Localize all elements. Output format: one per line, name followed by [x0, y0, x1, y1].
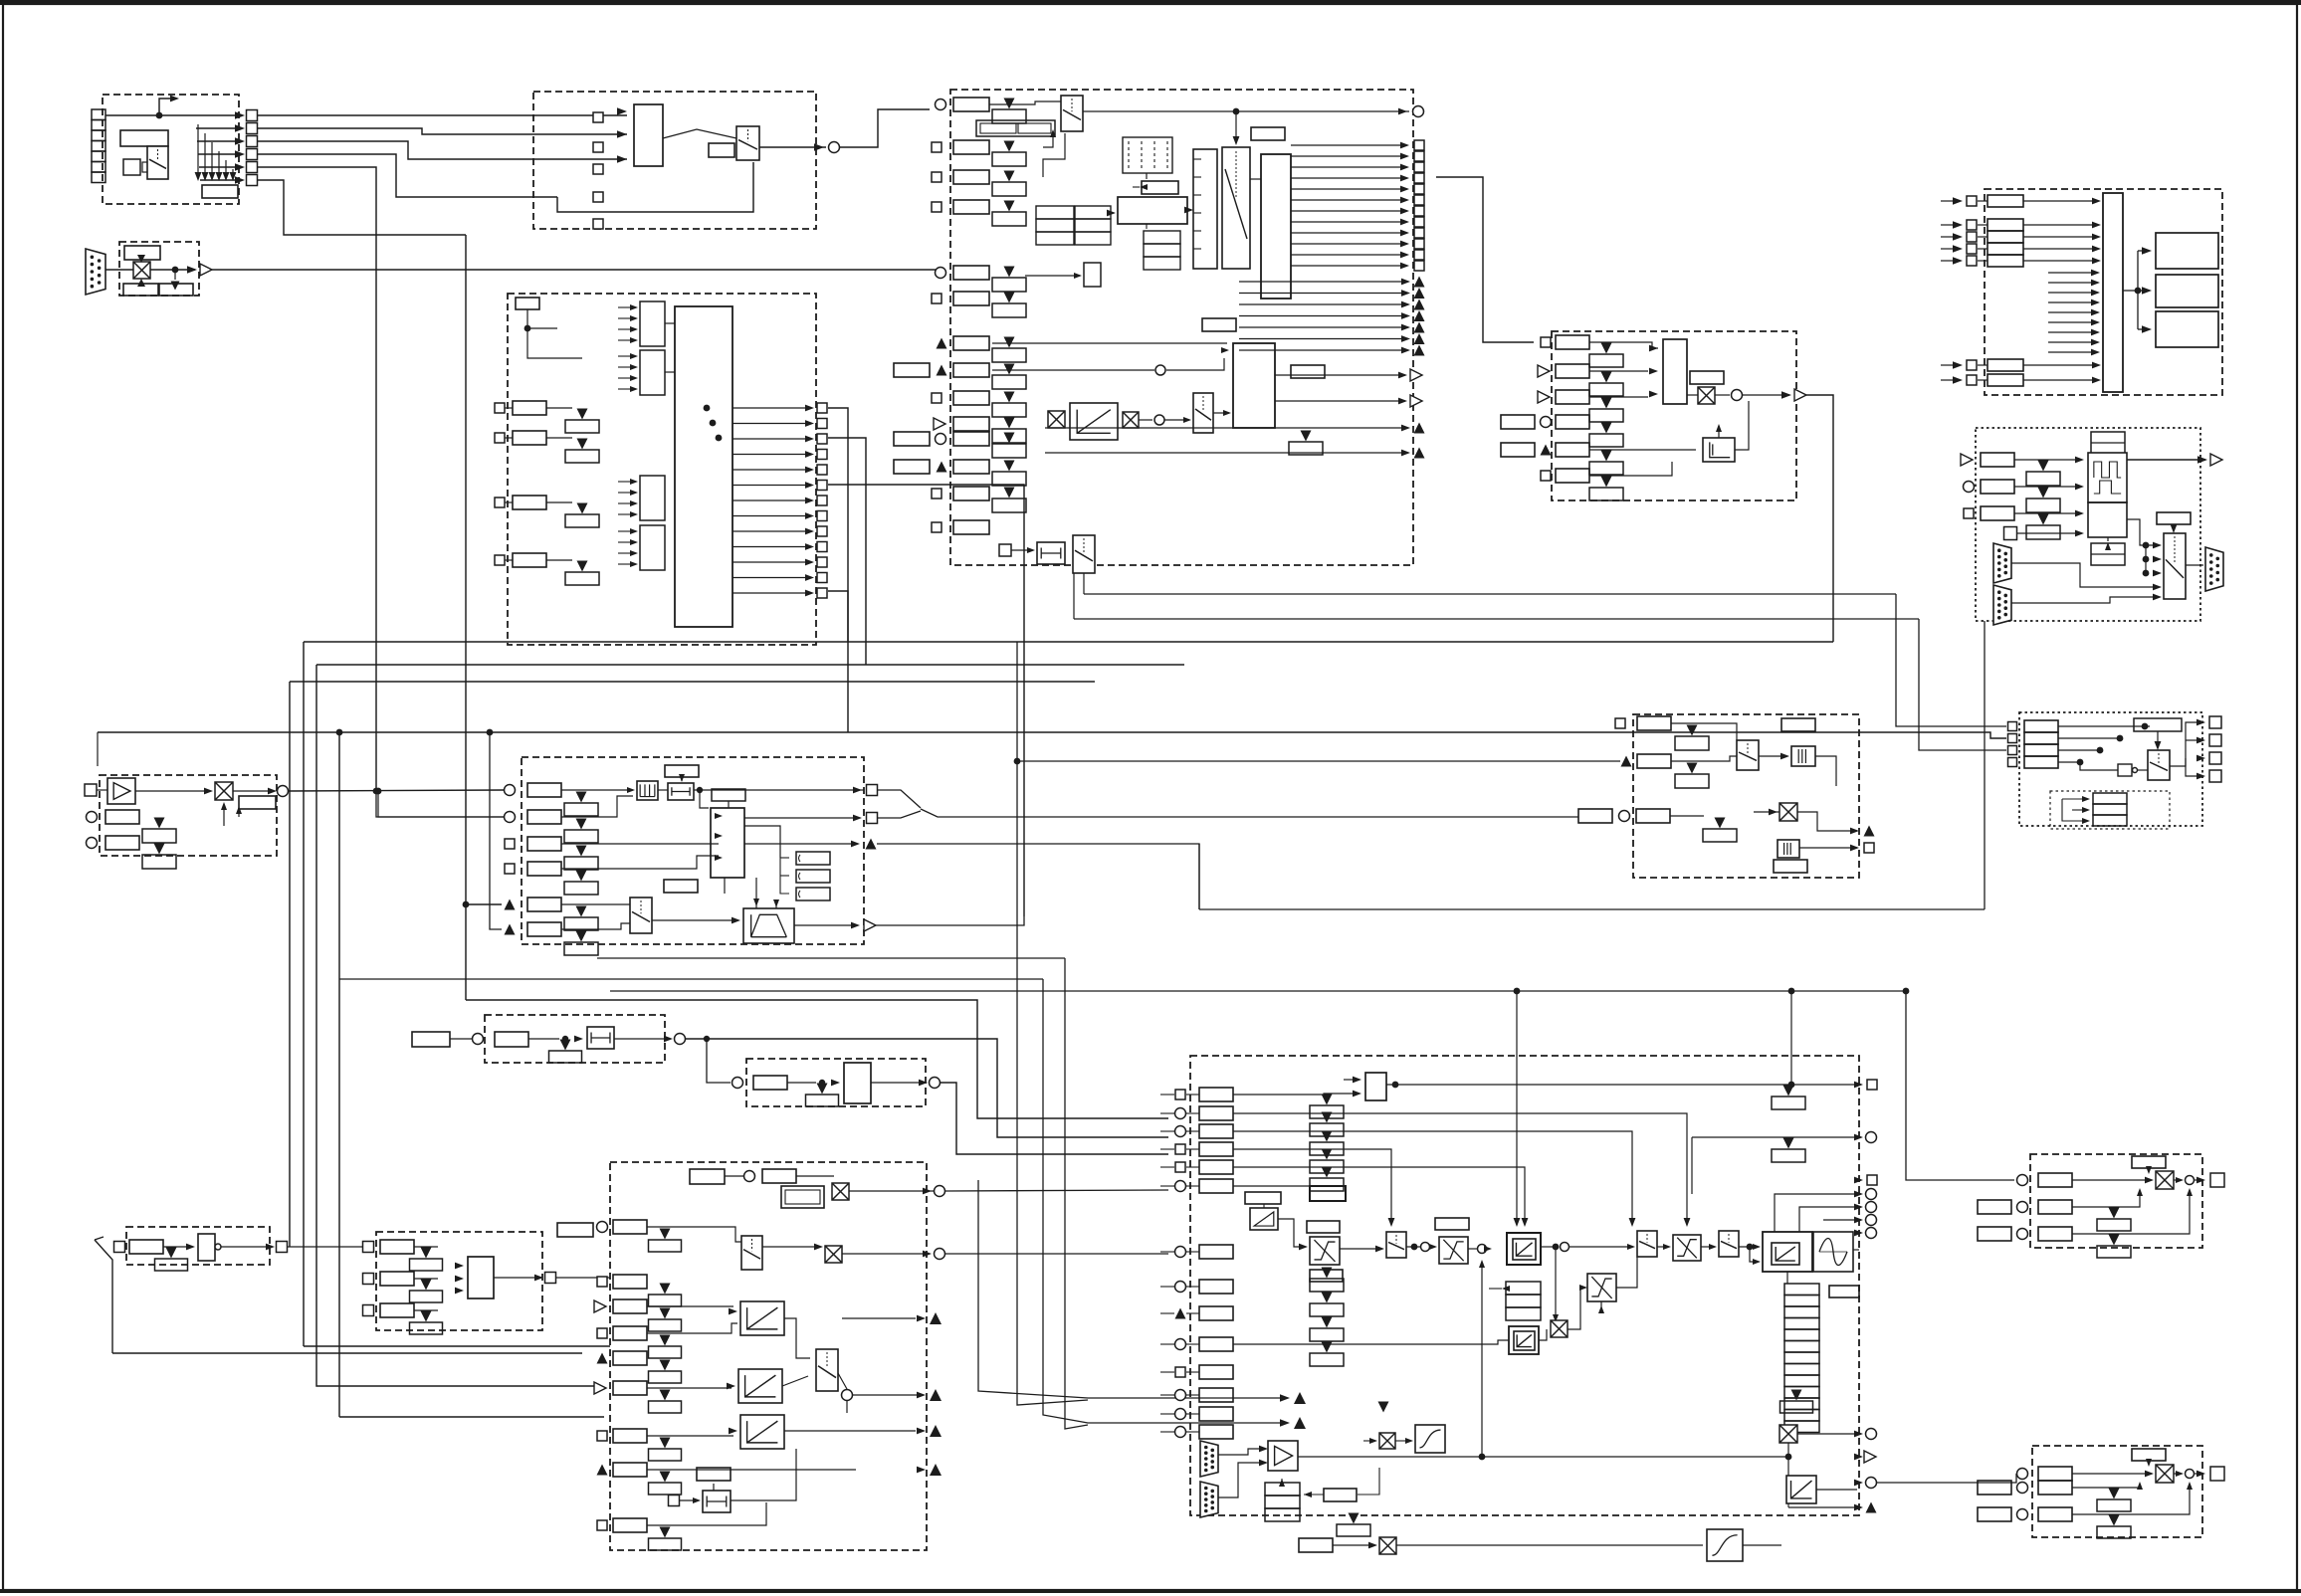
arrow into xbox from status: [137, 279, 145, 287]
wire lower loop to switch: [557, 162, 753, 212]
switch N2: [1637, 1231, 1657, 1257]
ext label slip M: [690, 1169, 725, 1184]
inner frame M: [785, 1190, 820, 1204]
wire xbox out: [150, 269, 195, 271]
2-stack top G: [2091, 432, 2125, 454]
DB9 connector N1: [1200, 1441, 1218, 1477]
output triangle D-1: [1414, 288, 1425, 299]
multiplier xbox H: [215, 782, 233, 800]
wire A1.6 step: [258, 180, 466, 235]
param top R: [2132, 1156, 2166, 1168]
arrow F y367: [1953, 361, 1963, 369]
input square Q2: [2008, 746, 2017, 755]
ext label P: [1578, 809, 1612, 823]
ext label box J: [412, 1032, 450, 1047]
char curve M3: [740, 1415, 784, 1449]
binector output square A1-1: [247, 110, 258, 121]
multiplier xbox E: [1698, 387, 1715, 404]
input circle S3: [2017, 1509, 2028, 1520]
connector square b1: [593, 112, 603, 122]
output triangle E: [1794, 389, 1806, 401]
wire long vertical x305: [303, 642, 305, 1346]
ext label D11: [894, 460, 930, 474]
output switch G: [2164, 533, 2186, 599]
input circle N y1439: [1175, 1427, 1186, 1438]
input circle J: [473, 1034, 484, 1045]
block: min selector E: [1663, 339, 1687, 404]
param below limiter N1: [1310, 1270, 1343, 1282]
input square L1: [363, 1274, 374, 1285]
input square G: [1964, 508, 1974, 518]
jog chain bottom of D: [999, 544, 1011, 556]
wire DB9 to xbox: [105, 269, 133, 271]
node circle Nc: [1561, 1243, 1569, 1252]
indexed param C y563: [577, 561, 588, 572]
dashed group: fixed frequency box L: [376, 1232, 542, 1330]
wire merge 1b: [1017, 642, 1088, 1405]
wire down2: [527, 328, 582, 358]
wire mux out y168: [1291, 166, 1405, 168]
input triangle G: [1961, 454, 1973, 466]
out tri D low2: [1414, 448, 1425, 459]
connector square K out: [277, 1242, 288, 1253]
wire D out to box E: [1436, 177, 1534, 342]
stair 2: [1799, 1207, 1859, 1232]
block: display word 2: [2156, 275, 2218, 307]
input square C y440: [495, 433, 505, 443]
input square N y1100: [1175, 1090, 1185, 1099]
input circle E y424: [1541, 417, 1552, 428]
tall selector switch D2: [1222, 147, 1250, 269]
param box: switch source: [709, 143, 734, 157]
indexed param C y505: [577, 503, 588, 514]
node circle E: [1732, 390, 1743, 401]
wire: branch arrow up: [159, 99, 175, 112]
input square M y1288: [597, 1277, 607, 1287]
block: status mux F: [2103, 193, 2123, 392]
output ref triangle D2: [1410, 395, 1422, 407]
input ftri I y934: [505, 924, 516, 935]
arrow N out low y1490: [1854, 1480, 1863, 1487]
output ref triangle D1: [1410, 369, 1422, 381]
indexed param on y1090: [1783, 1086, 1794, 1097]
junction dots C: [524, 325, 531, 332]
multiplier xbox N right: [1779, 1425, 1797, 1443]
param P low2: [1774, 860, 1807, 873]
input circle N y1119: [1175, 1108, 1186, 1119]
bus drop x1800: [1790, 991, 1792, 1085]
input square D13: [932, 522, 941, 532]
junction dots on mux input: [704, 405, 711, 412]
indexed param C y410: [577, 409, 588, 420]
wire bus y996: [610, 990, 1906, 992]
junction dot x1022 y765: [1014, 758, 1021, 765]
input square D12: [932, 489, 941, 499]
filter block P2: [1778, 840, 1799, 858]
block: modulator lower: [2088, 502, 2127, 537]
ext label E2: [1501, 443, 1535, 457]
wire A1.3 to box B input 3: [258, 141, 627, 159]
output square N top: [1867, 1080, 1877, 1090]
binector output square A1-4: [247, 149, 258, 160]
output circle J: [675, 1034, 686, 1045]
junction dots y1090: [1392, 1082, 1399, 1089]
page bottom heavy rule: [0, 1589, 2301, 1593]
param above xbox N low: [1378, 1402, 1389, 1413]
param above droop N: [1245, 1192, 1281, 1204]
arrow N out y1186: [1854, 1177, 1863, 1184]
wire mux out y157: [1291, 155, 1405, 157]
jog switch D: [1073, 535, 1095, 573]
wire long vertical x318 to box M: [316, 665, 596, 1386]
output circle N y1143: [1866, 1132, 1877, 1143]
param box Q top: [2134, 718, 2182, 731]
wire E out down to bus: [1806, 395, 1833, 642]
indexed param under core D: [1301, 431, 1312, 442]
param box: USS address: [124, 246, 160, 260]
wire H branch to box I row2: [378, 791, 504, 817]
wire mux out 5: [732, 485, 808, 487]
wire long bus y645: [304, 641, 1833, 643]
output square I2: [867, 813, 878, 824]
input circle I y821: [505, 812, 516, 823]
wire to switch: [989, 101, 1061, 104]
input square D2: [932, 142, 941, 152]
switch N3: [1719, 1231, 1739, 1257]
op-amp N: [1268, 1441, 1298, 1471]
input triangle E y373: [1538, 365, 1550, 377]
junction dot bus996 x1524: [1514, 988, 1521, 995]
wire M out y1260: [945, 1253, 1168, 1255]
output square P: [1864, 843, 1874, 853]
wire y1360 to box M: [112, 1352, 582, 1354]
param above mux D: [1251, 127, 1285, 140]
param above brake xbox: [1349, 1513, 1360, 1524]
dashed group: MOP & fixed setpoint box I: [522, 757, 864, 944]
stub down: [174, 270, 176, 280]
sine generator N: [1813, 1232, 1853, 1272]
stub: [97, 732, 99, 766]
indexed param on y1143: [1783, 1138, 1794, 1149]
3-row stack D: [1144, 231, 1180, 244]
matrix param box: [1142, 181, 1178, 194]
param right of stack: [1829, 1286, 1859, 1297]
wire mux out y267: [1291, 265, 1405, 267]
dashed group: analog output box S: [2032, 1446, 2202, 1537]
ramp-function generator D: [1070, 403, 1118, 440]
indexed param R: [2109, 1208, 2120, 1219]
junction dot x341 bus736: [336, 729, 343, 736]
arrow N out y1213: [1854, 1204, 1863, 1211]
DB9 encoder connector G2: [1993, 585, 2011, 625]
wire long bus y668: [316, 664, 1184, 666]
NOT bubble K: [215, 1244, 221, 1250]
ext label S3: [1978, 1507, 2011, 1521]
block: PID scaler O: [844, 1063, 871, 1103]
junction dot I: [697, 787, 703, 793]
arrow out Q2: [2196, 755, 2205, 762]
input circle N y1192: [1175, 1181, 1186, 1192]
wire A1.2 to box B input 2: [258, 128, 627, 134]
wire long bus y685: [290, 681, 1095, 683]
wire mux out 6: [732, 499, 808, 501]
arrow into switch G y590: [2153, 584, 2162, 591]
param under L2: [421, 1311, 432, 1322]
wire to analog out R: [1906, 991, 2014, 1180]
block: big binector multiplexer: [675, 306, 732, 627]
arrow N out y1239: [1854, 1230, 1863, 1237]
wire up into switch2: [1043, 133, 1065, 177]
wire bus y963: [597, 957, 1065, 959]
wire merge 2: [1043, 979, 1284, 1423]
arrow into connector sq5: [235, 163, 245, 171]
PID switch: [1737, 740, 1759, 770]
limiter N2: [1439, 1237, 1468, 1264]
wire bus y914: [1199, 908, 1985, 910]
node circle M: [842, 1390, 853, 1401]
block: logic gate: [123, 159, 140, 175]
ramp block N right: [1786, 1476, 1816, 1503]
binector output square A1-5: [247, 162, 258, 173]
wire branch to box I ftri: [466, 903, 502, 905]
block: NOT K: [198, 1234, 215, 1261]
input square N y1379: [1175, 1367, 1185, 1377]
merge output tri 2: [1294, 1417, 1306, 1429]
wire merge 2b: [1065, 958, 1088, 1429]
3-stack rects Q: [2093, 793, 2127, 804]
analog output triangle: [200, 264, 212, 276]
wire out tri y283.0: [1239, 281, 1405, 283]
limiter N1: [1310, 1237, 1340, 1265]
junction dot x378/H: [373, 788, 380, 795]
input square Q3: [2008, 758, 2017, 767]
indexed param S3: [2109, 1515, 2120, 1526]
wire to Q: [1896, 594, 2006, 726]
wire vert x1994 from G: [1984, 621, 1986, 909]
input ftri I y909: [505, 899, 516, 910]
block: display word 3: [2156, 311, 2218, 347]
param right of switch I: [664, 880, 698, 893]
dashed group: analog input box H: [100, 775, 277, 856]
param right of xbox H: [239, 796, 276, 809]
wire N top output y1090: [1386, 1084, 1859, 1086]
internal arrows F: [2048, 272, 2093, 274]
output square C-6: [817, 496, 827, 505]
output circle M2: [935, 1249, 945, 1260]
input circle D1: [936, 100, 946, 110]
wire drop 2: [204, 133, 206, 175]
switch N1: [1386, 1232, 1406, 1258]
input ftri E y452: [1541, 445, 1552, 456]
branch down to selector: [1235, 111, 1237, 141]
input ref triangle D: [934, 418, 945, 430]
multiplier xbox S: [2156, 1465, 2174, 1483]
input circle I y794: [505, 785, 516, 796]
input circle D10: [936, 434, 946, 445]
param above limiter I: [665, 765, 699, 777]
input square C y410: [495, 403, 505, 413]
wire drop 6: [232, 169, 234, 175]
input ftri N y1320: [1175, 1308, 1186, 1319]
wire to sq2: [196, 127, 235, 129]
ext label S2: [1978, 1481, 2011, 1495]
bus drop x1524: [1516, 991, 1518, 1222]
wire C out3: [828, 591, 848, 732]
status word box: [202, 185, 238, 198]
indexed param R3: [2109, 1235, 2120, 1246]
limiter block I: [668, 783, 694, 800]
junction dot J2: [704, 1036, 710, 1042]
DB9 output connector G3: [2205, 547, 2223, 591]
small reg D: [1084, 263, 1101, 287]
wire mux out y256: [1291, 254, 1405, 256]
block: control word assembler D: [1118, 197, 1187, 224]
wire bus y984: [339, 978, 1043, 980]
input circle N y1351: [1175, 1339, 1186, 1350]
wire mux out y212: [1291, 210, 1405, 212]
input circle R: [2017, 1175, 2028, 1186]
arrow into connector sq1: [235, 111, 245, 119]
input square K: [114, 1242, 125, 1253]
dashed group: command selector box B: [533, 92, 816, 229]
arrow F y202: [1953, 197, 1963, 205]
char curve M2: [738, 1369, 782, 1403]
selector switch B: [736, 126, 759, 160]
wire I row1 out: [694, 789, 856, 791]
output triangle D-0: [1414, 277, 1425, 288]
wire mux out 8: [732, 530, 808, 532]
park limiter N: [1587, 1274, 1616, 1301]
arrow N out y1200: [1854, 1191, 1863, 1198]
junction dot D y112: [1233, 108, 1240, 115]
multiplier xbox D: [1048, 411, 1065, 428]
output relay switch Q: [2148, 750, 2170, 780]
wire mux out y146: [1291, 144, 1405, 146]
NOT gate Q: [2118, 764, 2132, 776]
output circle D: [1413, 106, 1424, 117]
wire bus y622: [1074, 618, 1919, 620]
dotted group: digital output box Q: [2019, 712, 2202, 826]
output square C-8: [817, 526, 827, 536]
input square D3: [932, 172, 941, 182]
input tri D11: [937, 462, 947, 473]
param above P switch: [1781, 718, 1815, 731]
pre-mux register at y478: [640, 476, 665, 520]
junction dot O: [819, 1080, 825, 1086]
char curve M1: [740, 1301, 784, 1335]
arrow out Q1: [2196, 737, 2205, 744]
wire bus y1424: [339, 1416, 604, 1418]
param top S: [2132, 1449, 2166, 1461]
output square D-7: [1414, 217, 1424, 227]
output triangle D-2: [1414, 299, 1425, 310]
binector output square A1-3: [247, 136, 258, 147]
wire bus y1005 into box N: [466, 1000, 1168, 1118]
input square D9: [932, 393, 941, 403]
arrow F y226: [1953, 221, 1963, 229]
indexed param P low: [1715, 818, 1726, 829]
output square C-4: [817, 465, 827, 475]
output square C-3: [817, 450, 827, 460]
switch M2: [816, 1349, 838, 1391]
output square D-9: [1414, 239, 1424, 249]
selector switch: [147, 146, 168, 179]
dashed group: PID controller box P: [1633, 714, 1859, 878]
wire to sq1: [105, 114, 235, 116]
output square D-6: [1414, 206, 1424, 216]
block: integrator frame N2: [1509, 1326, 1539, 1354]
output terminal square R: [2210, 1173, 2224, 1187]
3-stack N low: [1265, 1483, 1300, 1496]
input circle H1: [87, 812, 98, 823]
output tri M2b: [930, 1389, 941, 1401]
output square C-12: [817, 588, 827, 598]
node circle R: [2186, 1176, 2195, 1185]
wire opamp out N y1464: [1298, 1456, 1788, 1458]
param under O: [817, 1084, 828, 1095]
wire mux out y245: [1291, 243, 1405, 245]
wire jog down to bus: [1083, 573, 1085, 594]
dashed group: V/f control box M: [610, 1162, 927, 1550]
circle slip M: [744, 1171, 755, 1182]
wire mux out 0: [732, 407, 808, 409]
arrow into status boxes: [171, 282, 180, 291]
output square C-11: [817, 573, 827, 583]
status box 1: [123, 284, 158, 296]
feedback vertical x1489: [1481, 1264, 1483, 1457]
block: display word 1: [2156, 233, 2218, 269]
param under L0: [421, 1248, 432, 1259]
arrow into switch G y562: [2153, 556, 2162, 563]
wire M1 out to box N: [945, 1190, 1168, 1191]
multiplier xbox D2: [1123, 412, 1139, 428]
pre-mux register at y352: [640, 350, 665, 395]
dashed group: vector control box N: [1190, 1056, 1859, 1515]
param above core D: [1202, 318, 1236, 331]
wire integ up: [1735, 401, 1749, 450]
junction dot x492 on bus736: [487, 729, 494, 736]
droop block N: [1250, 1208, 1278, 1230]
input circle D5: [936, 268, 946, 279]
block: control word register: [120, 130, 168, 146]
control drop row4: [1233, 1149, 1391, 1222]
upper indexed param stack N: [1322, 1095, 1333, 1105]
limiter M low: [703, 1491, 731, 1512]
output tri I: [866, 839, 877, 850]
output square D-11: [1414, 261, 1424, 271]
wire out tri y306.0: [1239, 303, 1405, 305]
jog limiter D: [1037, 542, 1065, 564]
wire mux out 7: [732, 515, 808, 517]
output square D-8: [1414, 228, 1424, 238]
dashed group: logic inverter box K: [126, 1227, 270, 1265]
wire drop 1: [197, 124, 199, 175]
output tri M1b: [930, 1312, 941, 1324]
input square L2: [363, 1305, 374, 1316]
arrow F y250: [1953, 245, 1963, 253]
input circle G: [1964, 482, 1975, 493]
wire very long bus y736: [98, 732, 2006, 738]
input circle R2: [2017, 1202, 2028, 1213]
block: priority encoder: [634, 104, 663, 166]
limiter N3: [1673, 1235, 1701, 1261]
param above xbox N right: [1791, 1390, 1802, 1401]
ext label E1: [1501, 415, 1535, 429]
param brake chopper: [1299, 1538, 1333, 1552]
arrow into connector sq3: [235, 137, 245, 145]
wire brake chain: [1396, 1544, 1703, 1546]
multiplier xbox N low: [1379, 1433, 1395, 1449]
